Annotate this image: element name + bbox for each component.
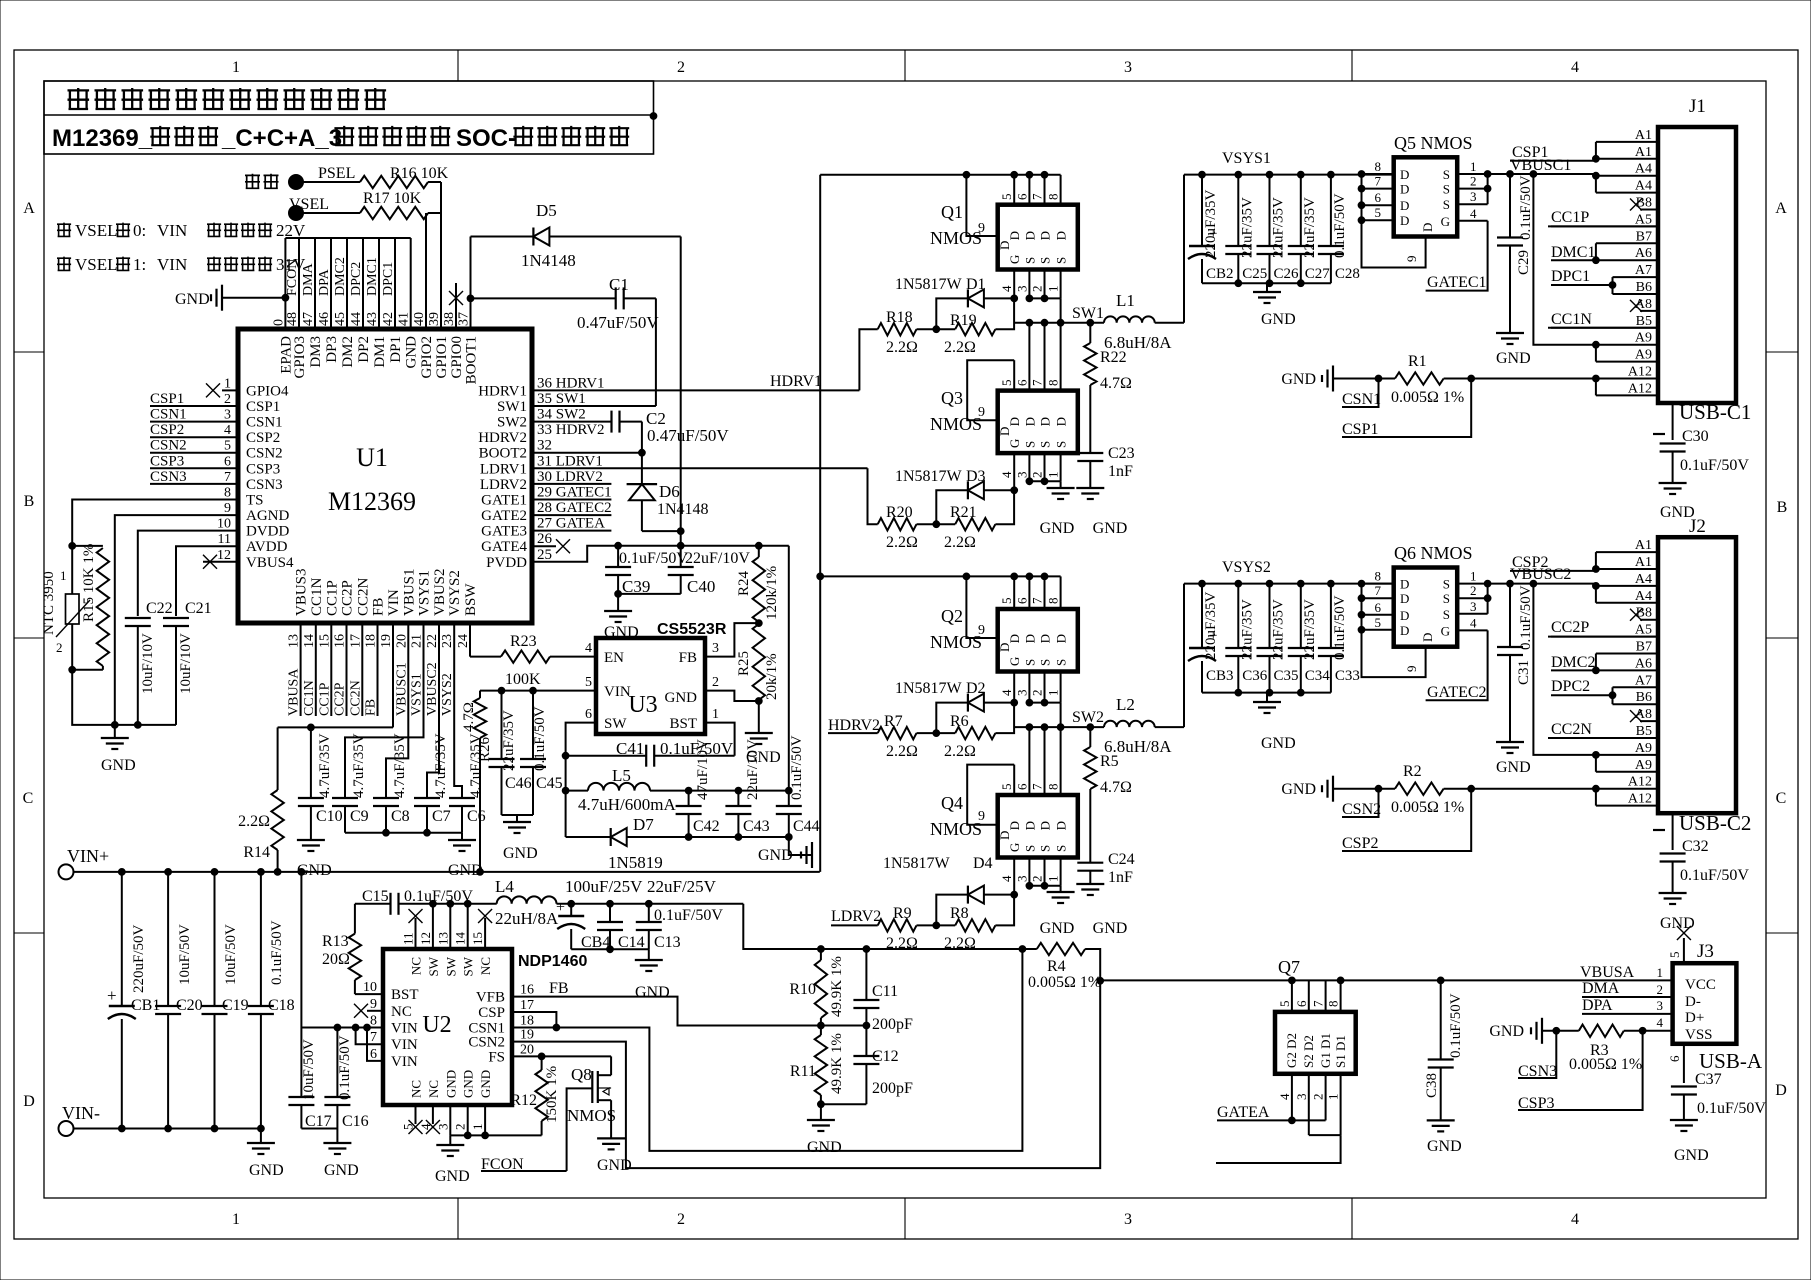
svg-text:GATE4: GATE4 (481, 539, 527, 555)
svg-text:DMA: DMA (301, 262, 316, 296)
capacitor C41 0.1uF/50V bootstrap (566, 755, 647, 757)
Q3 bottom pin 2 lead (1044, 453, 1046, 481)
svg-text:VSYS1: VSYS1 (1222, 150, 1271, 167)
svg-text:8: 8 (1046, 194, 1061, 201)
svg-text:G2 D2: G2 D2 (1284, 1033, 1299, 1068)
svg-text:C: C (1776, 790, 1787, 807)
svg-text:C24: C24 (1108, 851, 1135, 868)
node GATEA at Q7 gate (1289, 1117, 1296, 1124)
node bank2 bottom x=1269.5 (1266, 689, 1273, 696)
svg-text:CC1N: CC1N (1551, 311, 1592, 328)
svg-text:GND: GND (503, 845, 538, 862)
svg-text:DPC1: DPC1 (381, 262, 396, 296)
svg-text:R5: R5 (1100, 753, 1119, 770)
capacitor C11 200pF (865, 949, 867, 1000)
connector pin A4 row wire (1596, 602, 1658, 604)
svg-text:R17 10K: R17 10K (363, 190, 422, 207)
wire GND to EPAD pin0 (222, 297, 285, 299)
node C8 bottom (383, 829, 390, 836)
wire SW row with C15 (355, 903, 391, 905)
svg-text:HDRV2: HDRV2 (478, 430, 527, 446)
svg-text:14: 14 (453, 932, 468, 946)
svg-text:1: 1 (1046, 876, 1061, 883)
svg-text:220uF/50V: 220uF/50V (131, 924, 147, 993)
title company name row (68, 88, 90, 110)
svg-text:B5: B5 (1636, 724, 1652, 739)
U1 pin26 stub with no-connect X (532, 545, 556, 547)
Q6 left pin 7 (1362, 597, 1394, 599)
resistor R24 120k vertical (753, 557, 765, 622)
bracket B7-A6 loop (1595, 654, 1597, 671)
U1 pin 12 (VBUS4) (203, 561, 238, 563)
U1 pin 7 (CSN3) (150, 483, 238, 485)
Q6 right pin 3 (S) (1457, 613, 1487, 615)
svg-text:11: 11 (218, 532, 231, 547)
svg-text:Q6 NMOS: Q6 NMOS (1394, 543, 1473, 563)
svg-text:0:: 0: (133, 221, 146, 240)
svg-text:4: 4 (999, 285, 1014, 292)
bracket A7-B6 loop (1612, 687, 1614, 704)
Q3 bottom pin 3 lead (1028, 453, 1030, 481)
Q3 bottom pin 4 lead (1013, 453, 1015, 490)
Q7 top pin 6 lead (1308, 980, 1310, 1012)
svg-text:A9: A9 (1635, 758, 1652, 773)
svg-text:4: 4 (1470, 206, 1477, 221)
svg-text:SW: SW (426, 956, 441, 976)
svg-text:C16: C16 (342, 1113, 369, 1130)
svg-text:M12369_: M12369_ (52, 125, 153, 152)
wire CSN1 pin18 loop to R4 left (512, 949, 1022, 1151)
svg-text:DPA: DPA (317, 268, 332, 296)
ground sideways below C44 (789, 837, 812, 855)
svg-text:D: D (23, 1093, 35, 1110)
svg-text:D: D (997, 643, 1012, 652)
node EPAD junction (282, 294, 289, 301)
capacitor C9 4.7uF/35V (332, 797, 358, 799)
svg-text:DMA: DMA (1582, 980, 1620, 997)
node DMC2 at A6 (1593, 667, 1600, 674)
wire Q6 source strap (1487, 584, 1489, 614)
svg-text:31 LDRV1: 31 LDRV1 (537, 453, 603, 469)
U2 top pin 12 (SW) (432, 904, 434, 949)
ground symbol below U2 (449, 1135, 451, 1145)
no-connect X on A8 (1630, 710, 1642, 722)
svg-text:43: 43 (365, 312, 380, 326)
svg-text:Q2: Q2 (941, 606, 963, 626)
svg-text:GND: GND (1496, 759, 1531, 776)
svg-text:CC2N: CC2N (348, 680, 363, 716)
svg-text:NC: NC (478, 957, 493, 975)
svg-text:6: 6 (1375, 600, 1382, 615)
Q2 top pin 5 lead (1013, 576, 1015, 609)
svg-text:4.7uF/35V: 4.7uF/35V (468, 733, 484, 798)
capacitor C38 0.1uF/50V (1440, 980, 1442, 1059)
node DPC2 at A7/B6 (1609, 692, 1616, 699)
svg-text:37: 37 (457, 312, 472, 326)
svg-text:C8: C8 (391, 808, 410, 825)
wire DVDD pin10 to C22 (138, 531, 238, 616)
U1 pin 43 lead (DM1) (378, 238, 380, 329)
svg-text:2: 2 (56, 640, 63, 655)
no-connect X on U1 pin 38 (449, 291, 463, 305)
connector pin B5 row wire (1548, 737, 1658, 739)
svg-text:1: 1 (470, 1124, 485, 1131)
svg-text:D: D (1400, 577, 1409, 592)
svg-text:1N4148: 1N4148 (657, 501, 709, 518)
svg-text:D+: D+ (1685, 1010, 1704, 1026)
node Q1 drain rail x=1014.2 (1011, 171, 1018, 178)
Q5 left pin 6 (1362, 204, 1394, 206)
node VIN- rail x=214.5 (211, 1125, 218, 1132)
Q3 top pin 8 lead (1060, 323, 1062, 391)
svg-text:41: 41 (397, 312, 412, 326)
svg-text:A12: A12 (1628, 775, 1652, 790)
svg-text:C10: C10 (316, 808, 343, 825)
inductor L5 4.7uH/600mA (566, 790, 588, 792)
node Q1 drain rail x=1029.4 (1026, 171, 1033, 178)
svg-text:0.005Ω 1%: 0.005Ω 1% (1028, 974, 1101, 991)
svg-text:R14: R14 (243, 844, 270, 861)
svg-text:CSP2: CSP2 (1342, 835, 1378, 852)
U1 pin 41 lead (GND) (410, 238, 412, 329)
no-connect X on B8 (1630, 199, 1642, 211)
svg-text:VIN-: VIN- (62, 1103, 100, 1123)
capacitor C43 22uF/10V (737, 791, 739, 806)
svg-text:Q3: Q3 (941, 388, 963, 408)
svg-text:0.1uF/50V: 0.1uF/50V (1680, 457, 1749, 474)
ground symbol below C16 (336, 1129, 338, 1144)
svg-text:D: D (997, 427, 1012, 436)
ground symbol below bank1 (1266, 283, 1268, 292)
node bank1 bottom x=1238.3 (1235, 280, 1242, 287)
node VSYS2 CB3 top (1199, 580, 1206, 587)
transistor Q4 NMOS body (998, 795, 1078, 858)
Q4 bottom pin 3 lead (1028, 858, 1030, 886)
ground sideways at R1 (1332, 366, 1334, 392)
svg-text:SW2: SW2 (497, 415, 527, 431)
diode D7 1N5819 freewheel (566, 836, 611, 838)
svg-text:1: 1 (1657, 965, 1664, 980)
capacitor C21 10uF/10V (163, 617, 189, 619)
svg-text:VBUSA: VBUSA (1580, 964, 1635, 981)
svg-text:20: 20 (520, 1042, 534, 1057)
node L5 out PVDD junction (785, 787, 792, 794)
svg-text:17: 17 (348, 634, 363, 648)
svg-text:9: 9 (978, 623, 985, 638)
svg-text:CC2P: CC2P (333, 682, 348, 716)
svg-text:VBUS4: VBUS4 (246, 555, 294, 571)
capacitor C7 4.7uF/35V (414, 797, 440, 799)
svg-text:SW1: SW1 (1072, 305, 1104, 322)
Q5 right pin 4 (G) (1457, 220, 1487, 222)
svg-text:2: 2 (1311, 1094, 1326, 1101)
svg-text:R13: R13 (322, 933, 349, 950)
svg-text:D: D (1400, 623, 1409, 638)
svg-text:GATE1: GATE1 (481, 493, 527, 509)
svg-text:Q7: Q7 (1278, 957, 1300, 977)
svg-text:12: 12 (217, 548, 231, 563)
wire L1 to VSYS1 bank riser (1183, 175, 1185, 323)
capacitor C37 0.1uF/50V (1671, 1085, 1697, 1087)
svg-text:C21: C21 (185, 600, 212, 617)
diode D2 1N5817W (967, 694, 969, 712)
wire LDRV2 stub from U1 pin30 (532, 483, 611, 485)
wire C41 to U3 BST (705, 723, 735, 756)
svg-text:D: D (1054, 231, 1069, 240)
wire D1 branch (936, 298, 968, 329)
no-connect X U2 pin 4 (426, 1120, 440, 1134)
terminal VIN+ (59, 864, 74, 879)
svg-text:A7: A7 (1635, 263, 1652, 278)
node R4 left (1019, 946, 1026, 953)
svg-text:GATE3: GATE3 (481, 524, 527, 540)
ground symbol below C38 (1427, 1119, 1455, 1121)
wire drain vertical to VIN+ (819, 175, 821, 872)
node Q5 rail-in (1358, 171, 1365, 178)
node BOOT1 wire junction (467, 295, 474, 302)
Q7 top pin 7 lead (1325, 980, 1327, 1012)
connector pin A12 row wire (1596, 378, 1658, 380)
U1 pin 19 (VIN) lead (392, 623, 394, 727)
bracket A12 loop (1595, 789, 1597, 806)
svg-text:22uF/35V: 22uF/35V (1239, 197, 1255, 258)
svg-text:9: 9 (370, 997, 377, 1012)
Q6 right pin 1 (S) (1457, 583, 1487, 585)
transistor Q5 NMOS body (1394, 157, 1458, 236)
wire C2 to BOOT2 (641, 422, 643, 485)
svg-text:S: S (1054, 659, 1069, 666)
svg-text:CB2: CB2 (1206, 266, 1234, 282)
inductor L1 6.8uH/8A (1104, 316, 1155, 322)
svg-text:DP3: DP3 (324, 336, 340, 363)
svg-text:C: C (23, 790, 34, 807)
svg-text:USB-C2: USB-C2 (1679, 811, 1751, 835)
node C38 top (1437, 977, 1444, 984)
svg-text:L4: L4 (495, 877, 514, 896)
Q4 top pin 7 lead (1044, 727, 1046, 795)
capacitor C24 1nF (1077, 862, 1103, 864)
wire Q4 source strap to GND (1029, 885, 1060, 887)
svg-text:C26: C26 (1274, 266, 1300, 282)
svg-text:CSN1: CSN1 (1342, 391, 1381, 408)
svg-text:D: D (1022, 417, 1037, 426)
svg-text:6: 6 (585, 707, 592, 722)
svg-text:VBUSA: VBUSA (287, 668, 302, 716)
svg-text:S1 D1: S1 D1 (1333, 1035, 1348, 1068)
svg-text:3: 3 (1470, 599, 1477, 614)
svg-text:D7: D7 (633, 815, 654, 834)
border column tick 3/4 bottom (1351, 1198, 1353, 1239)
U2 bottom pin 1 (GND) (484, 1105, 486, 1135)
svg-text:DMC1: DMC1 (1551, 244, 1595, 261)
svg-text:D: D (1054, 634, 1069, 643)
svg-text:VSS: VSS (1685, 1027, 1713, 1043)
svg-text:Q4: Q4 (941, 793, 963, 813)
svg-text:R19: R19 (950, 312, 977, 329)
capacitor C10 4.7uF/35V (310, 727, 312, 798)
svg-text:_C+C+A_3: _C+C+A_3 (221, 125, 342, 152)
svg-text:0.47uF/50V: 0.47uF/50V (577, 313, 659, 332)
resistor R14 2.2ohm vertical (277, 727, 279, 790)
ground sideways at R3 (1541, 1018, 1543, 1044)
svg-text:3: 3 (1124, 59, 1132, 76)
connector pin A12 row wire (1596, 805, 1658, 807)
node Q3 gate (1011, 487, 1018, 494)
wire Q7 G1 to G2 bracket (1292, 1119, 1326, 1121)
connector pin A6 row wire (1596, 259, 1658, 261)
connector pin B5 row wire (1548, 327, 1658, 329)
svg-text:2: 2 (1470, 174, 1477, 189)
svg-text:32: 32 (537, 438, 552, 454)
svg-text:A12: A12 (1628, 792, 1652, 807)
svg-text:A4: A4 (1635, 162, 1652, 177)
U1 pin 17 (CC2N) lead (361, 623, 363, 716)
wire U2 pin7 riser (356, 1028, 383, 1045)
U1 pin 37 lead (BOOT1) (470, 298, 472, 329)
svg-text:D2: D2 (966, 680, 986, 697)
svg-text:C45: C45 (536, 775, 563, 792)
U2 top pin 15 (NC) (484, 918, 486, 949)
svg-text:5: 5 (999, 194, 1014, 201)
resistor R6 2.2ohm (955, 727, 995, 739)
node R2 at A12 (1593, 785, 1600, 792)
capacitor C28 0.1uF/50V (1330, 175, 1332, 246)
svg-text:2.2Ω: 2.2Ω (886, 534, 918, 551)
svg-text:NDP1460: NDP1460 (518, 953, 587, 970)
svg-text:R8: R8 (950, 905, 969, 922)
svg-text:Q5 NMOS: Q5 NMOS (1394, 133, 1473, 153)
Q2 bottom pin 3 lead (1028, 672, 1030, 703)
svg-text:4: 4 (1470, 615, 1477, 630)
svg-text:5: 5 (1667, 952, 1682, 959)
svg-text:G1 D1: G1 D1 (1318, 1033, 1333, 1068)
svg-text:R11: R11 (790, 1063, 816, 1080)
svg-text:BST: BST (391, 987, 419, 1003)
svg-text:7: 7 (224, 470, 231, 485)
node CSP1 tap (1468, 375, 1475, 382)
svg-text:CSP2: CSP2 (1512, 554, 1548, 571)
wire Q5 drain strap (1361, 174, 1363, 220)
wire R8 to Q4 gate (995, 895, 1014, 926)
svg-text:VFB: VFB (476, 990, 505, 1006)
node PSEL terminal dot (289, 175, 304, 190)
no-connect X on U1 pin 12 (203, 555, 217, 569)
border row tick B/C right (1766, 637, 1798, 639)
svg-text:CSP1: CSP1 (1512, 144, 1548, 161)
svg-text:S2 D2: S2 D2 (1301, 1035, 1316, 1068)
wire D6 anode to PVDD net (642, 530, 681, 532)
ground symbol NTC/C22 (114, 725, 116, 738)
svg-text:+: + (107, 986, 117, 1005)
wire VSYS2 bank bottoms (1202, 692, 1331, 694)
node Q6 strap pin7 (1358, 595, 1365, 602)
svg-text:2: 2 (1030, 876, 1045, 883)
capacitor C35 22uF/35V (1269, 584, 1271, 648)
svg-text:C46: C46 (505, 775, 532, 792)
node CSN3 tap (1553, 1027, 1560, 1034)
nodes U2 SW pins on wire (430, 900, 437, 907)
svg-text:G: G (1007, 255, 1022, 264)
svg-text:C32: C32 (1682, 838, 1709, 855)
svg-text:3: 3 (1014, 876, 1029, 883)
wire R2 to J2 A12 (1444, 788, 1596, 790)
svg-text:22uF/35V: 22uF/35V (1271, 197, 1287, 258)
U1 pin 4 (CSP2) (150, 436, 238, 438)
svg-text:D: D (1007, 231, 1022, 240)
U1 pin 16 (CC2P) lead (346, 623, 348, 716)
svg-text:D-: D- (1685, 994, 1701, 1010)
svg-text:GND: GND (1427, 1138, 1462, 1155)
svg-text:VSYS2: VSYS2 (440, 673, 455, 716)
no-connect X on B8 (1630, 609, 1642, 621)
svg-text:0.1uF/50V: 0.1uF/50V (789, 735, 805, 800)
svg-text:GND: GND (101, 757, 136, 774)
wire R1 to J1 A12 (1444, 378, 1596, 380)
svg-text:S: S (1038, 257, 1053, 264)
connector pin A9 row wire (1596, 771, 1658, 773)
connector pin B8 row wire (1640, 209, 1658, 211)
node DMC1 at A6 (1593, 257, 1600, 264)
svg-text:R12: R12 (510, 1092, 537, 1109)
svg-text:S: S (1022, 441, 1037, 448)
svg-text:A7: A7 (1635, 673, 1652, 688)
svg-text:FCON: FCON (285, 259, 300, 296)
U2 top pin 13 (SW) (449, 904, 451, 949)
svg-text:CSP: CSP (478, 1005, 505, 1021)
ground symbol below C13 (648, 949, 650, 960)
svg-text:S: S (1022, 257, 1037, 264)
svg-text:1: 1 (1326, 1094, 1341, 1101)
svg-text:1: 1 (1046, 472, 1061, 479)
svg-text:44: 44 (349, 312, 364, 326)
connector pin A6 row wire (1596, 669, 1658, 671)
svg-text:CC2P: CC2P (1551, 619, 1589, 636)
svg-text:DM3: DM3 (308, 336, 324, 368)
node R12 top (538, 1053, 545, 1060)
svg-text:R22: R22 (1100, 349, 1127, 366)
ground symbol below C29 (1496, 332, 1524, 334)
node C29 top (1507, 171, 1514, 178)
node title box corner (650, 113, 657, 120)
svg-text:SW: SW (443, 956, 458, 976)
connector pin A5 row wire (1548, 225, 1658, 227)
wire Q1 source to SW1 (1060, 298, 1062, 322)
resistor R21 2.2ohm (955, 518, 995, 530)
node Q5 strap pin6 (1358, 202, 1365, 209)
svg-text:GND: GND (1660, 915, 1695, 932)
svg-text:A8: A8 (1635, 707, 1652, 722)
node bank1 bottom x=1300.8 (1297, 280, 1304, 287)
ground symbol below Q8 (597, 1137, 625, 1139)
wire GATEC2 stub from U1 pin28 (532, 514, 611, 516)
svg-text:GATEC2: GATEC2 (1427, 684, 1487, 701)
U1 pin 44 lead (DP2) (362, 238, 364, 329)
svg-text:CSP3: CSP3 (150, 453, 184, 469)
svg-text:+: + (556, 899, 565, 916)
U1 pin24 BSW lead (469, 623, 471, 657)
svg-text:TS: TS (246, 493, 264, 509)
svg-text:CSP1: CSP1 (150, 391, 184, 407)
Q7 bottom pin 1 lead (1340, 1074, 1342, 1135)
svg-text:C36: C36 (1242, 668, 1268, 684)
svg-text:C22: C22 (146, 600, 173, 617)
Q1 bottom pin 1 lead (1060, 270, 1062, 299)
Q4 top pin 5 lead (1013, 765, 1015, 795)
svg-text:1: 1 (1470, 159, 1477, 174)
svg-text:7: 7 (1375, 583, 1382, 598)
svg-text:D4: D4 (973, 855, 993, 872)
svg-text:0.1uF/50V: 0.1uF/50V (1448, 993, 1464, 1058)
